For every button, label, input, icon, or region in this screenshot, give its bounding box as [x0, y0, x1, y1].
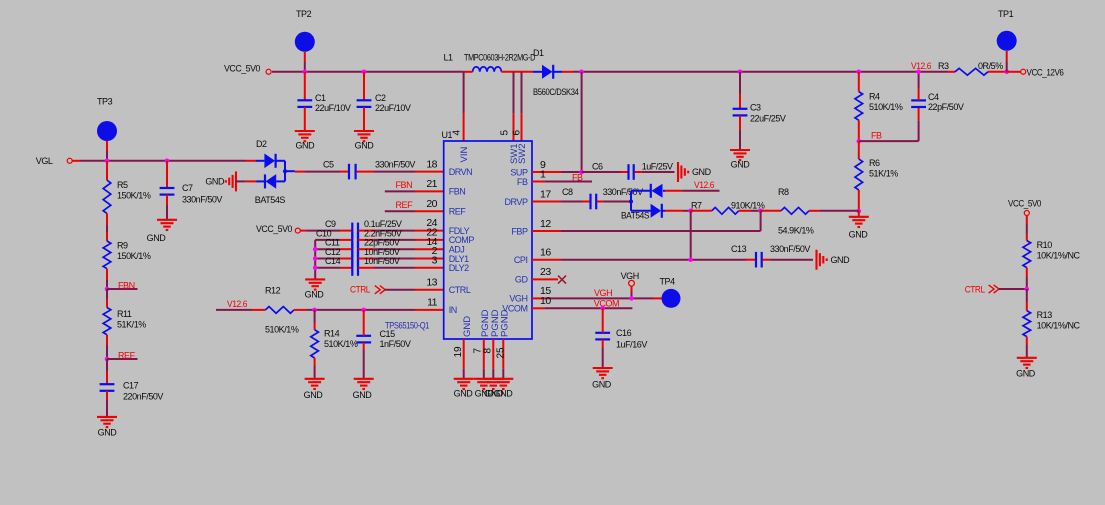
wire SW2 drop to pin 6 — [521, 72, 523, 114]
capacitor C12 10nF/50V — [340, 258, 352, 260]
svg-text:330nF/50V: 330nF/50V — [375, 160, 415, 170]
wire C10-C14 ground bus — [314, 240, 316, 279]
svg-text:R4: R4 — [869, 92, 880, 102]
node C7 junction — [165, 159, 170, 164]
svg-text:D1: D1 — [533, 48, 544, 58]
wire SUP pin 9 to C6 — [532, 171, 561, 173]
wire V12.6 stub (D3) — [683, 190, 720, 192]
wire VGH flag lead — [631, 286, 633, 292]
ground GND (C16) — [593, 367, 613, 369]
svg-text:BAT54S: BAT54S — [621, 210, 649, 220]
wire VIN drop to pin 4 — [463, 72, 465, 114]
svg-text:10K/1%/NC: 10K/1%/NC — [1037, 250, 1081, 260]
svg-text:TP4: TP4 — [660, 277, 676, 287]
svg-text:C2: C2 — [375, 93, 386, 103]
svg-text:CTRL: CTRL — [965, 285, 985, 295]
node R7/R8/FBP junction — [758, 209, 763, 214]
node C2 junction — [362, 70, 367, 75]
svg-text:VGH: VGH — [594, 288, 612, 298]
svg-text:TPS65150-Q1: TPS65150-Q1 — [385, 320, 429, 330]
capacitor C4 22pF/50V — [918, 107, 920, 120]
svg-text:DLY2: DLY2 — [449, 263, 469, 273]
svg-text:18: 18 — [426, 159, 437, 171]
resistor R13 10K/1%/NC — [1026, 289, 1028, 302]
wire pin 3 stub — [415, 267, 444, 269]
svg-text:510K/1%: 510K/1% — [265, 325, 299, 335]
svg-text:VCOM: VCOM — [594, 299, 619, 309]
svg-text:GND: GND — [731, 160, 751, 170]
wire FBP pin 12 — [532, 230, 561, 232]
svg-text:DRVP: DRVP — [504, 197, 527, 207]
wire PGND pin 7 — [483, 339, 485, 369]
wire TP2 lead — [304, 52, 306, 62]
svg-text:330nF/50V: 330nF/50V — [603, 187, 643, 197]
capacitor C1 — [304, 72, 306, 100]
svg-text:VCC_5V0: VCC_5V0 — [1008, 198, 1041, 208]
svg-text:6: 6 — [512, 130, 523, 136]
node R6/R8 junction — [857, 209, 862, 214]
svg-text:25: 25 — [495, 347, 506, 359]
resistor R3 0R/5% — [948, 71, 955, 73]
svg-text:10K/1%/NC: 10K/1%/NC — [1037, 320, 1081, 330]
wire PGND pin 25 — [502, 339, 504, 369]
svg-text:3: 3 — [432, 254, 438, 266]
svg-text:FBN: FBN — [118, 280, 135, 290]
ground GND (PGND pins) — [474, 378, 494, 380]
svg-text:8: 8 — [482, 348, 493, 354]
svg-text:V12.6: V12.6 — [227, 299, 247, 309]
svg-text:GND: GND — [462, 316, 473, 337]
capacitor C17 220nF/50V — [106, 359, 108, 371]
wire TP3 lead — [106, 141, 108, 151]
svg-text:R11: R11 — [117, 309, 132, 319]
wire pin 14 stub — [415, 248, 444, 250]
svg-text:16: 16 — [540, 247, 551, 259]
svg-text:21: 21 — [426, 178, 437, 190]
svg-text:220nF/50V: 220nF/50V — [123, 392, 163, 402]
wire pin 2 stub — [415, 258, 444, 260]
wire VGH pin 15 — [532, 297, 545, 299]
resistor R11 51K/1% — [106, 289, 108, 299]
ground GND (R13) — [1017, 357, 1037, 359]
svg-text:CPI: CPI — [514, 255, 528, 265]
node R4 junction on V12.6 rail — [857, 70, 862, 75]
power terminal VCC_5V0 (top left) — [266, 69, 271, 74]
svg-text:IN: IN — [449, 305, 457, 315]
svg-text:BAT54S: BAT54S — [255, 195, 286, 205]
svg-text:CTRL: CTRL — [350, 284, 370, 294]
resistor R6 51K/1% — [858, 141, 860, 159]
diode D3 BAT54S (charge pump) — [629, 200, 633, 204]
ground GND (R6/R8) — [858, 211, 860, 217]
svg-text:D2: D2 — [256, 139, 267, 149]
node VCC_5V0/C1/TP2 junction — [303, 70, 308, 75]
svg-text:330nF/50V: 330nF/50V — [182, 195, 222, 205]
svg-text:GND: GND — [98, 428, 118, 438]
wire DRVP pin 17 to C8 — [532, 201, 561, 203]
capacitor C11 22pF/50V — [340, 248, 352, 250]
svg-text:C3: C3 — [750, 103, 761, 113]
test point TP3 — [97, 121, 117, 141]
node CTRL junction — [1025, 287, 1030, 292]
svg-text:GND: GND — [494, 388, 514, 398]
svg-text:150K/1%: 150K/1% — [117, 191, 151, 201]
node bus junction C14 — [313, 266, 318, 271]
svg-text:12: 12 — [540, 218, 551, 230]
wire GD pin 23 no-connect — [532, 278, 558, 280]
node C3 junction — [738, 70, 743, 75]
svg-text:10: 10 — [540, 295, 551, 307]
svg-text:C4: C4 — [928, 92, 939, 102]
ground GND (C7) — [157, 219, 177, 221]
power terminal VCC_12V6 — [1007, 71, 1021, 73]
wire REF to pin 20 — [385, 210, 415, 212]
ground GND (D2, rotated) — [235, 171, 237, 191]
node VGL/R5 junction — [105, 159, 110, 164]
svg-text:C17: C17 — [123, 381, 139, 391]
svg-text:FBN: FBN — [449, 187, 466, 197]
svg-text:11: 11 — [427, 297, 438, 309]
node TP1 junction — [1004, 70, 1009, 75]
svg-text:19: 19 — [453, 346, 464, 358]
svg-text:V12.6: V12.6 — [694, 180, 714, 190]
svg-text:REF: REF — [118, 350, 136, 360]
wire VCOM pin 10 — [532, 307, 545, 309]
node FB junction — [857, 139, 862, 144]
wire pin 24 stub — [415, 230, 444, 232]
svg-text:10nF/50V: 10nF/50V — [364, 256, 400, 266]
svg-text:VIN: VIN — [459, 147, 470, 163]
node bus junction C12 — [313, 256, 318, 261]
resistor R9 150K/1% — [106, 232, 108, 241]
capacitor C6 1uF/25V — [621, 171, 629, 173]
svg-text:23: 23 — [540, 266, 551, 278]
test point TP4 — [653, 297, 662, 299]
ground GND (C15) — [354, 378, 374, 380]
svg-text:VGH: VGH — [509, 294, 527, 304]
node REF junction — [105, 357, 110, 362]
svg-text:1uF/25V: 1uF/25V — [642, 162, 673, 172]
wire FBP riser — [760, 211, 762, 231]
ground GND (C17) — [97, 416, 117, 418]
ground GND (C6, rotated) — [677, 162, 679, 182]
capacitor C16 1uF/16V — [602, 308, 604, 326]
svg-text:22uF/10V: 22uF/10V — [315, 103, 351, 113]
svg-text:R13: R13 — [1037, 310, 1053, 320]
svg-text:PGND: PGND — [500, 309, 511, 337]
svg-text:GND: GND — [692, 167, 712, 177]
wire V12.6 feed — [216, 309, 252, 311]
wire to pin 11 — [307, 309, 415, 311]
ground GND (R14) — [305, 378, 325, 380]
svg-text:GND: GND — [1016, 369, 1036, 379]
wire CTRL to pin 13 — [385, 289, 415, 291]
svg-text:GND: GND — [831, 255, 851, 265]
svg-text:B560C/DSK34: B560C/DSK34 — [533, 87, 579, 97]
svg-text:C5: C5 — [323, 160, 334, 170]
capacitor C7 330nF/50V — [166, 161, 168, 188]
svg-text:150K/1%: 150K/1% — [117, 251, 151, 261]
svg-text:GND: GND — [147, 233, 167, 243]
wire SUP drop from D1 junction — [581, 72, 583, 172]
ground GND (pin 19) — [454, 378, 474, 380]
test point TP1 — [997, 31, 1017, 51]
node SUP junction — [579, 170, 584, 175]
svg-text:GND: GND — [304, 390, 324, 400]
svg-text:VCC_5V0: VCC_5V0 — [256, 224, 292, 234]
resistor R12 510K/1% — [252, 309, 265, 311]
svg-text:1nF/50V: 1nF/50V — [380, 339, 411, 349]
wire D3 junction down to CPI row — [690, 211, 692, 260]
op-amp U1 TPS65150-Q1 IC body — [444, 141, 532, 339]
ground GND (C3) — [730, 149, 750, 151]
inductor L1 TMPC0603H-2R2MG-D — [464, 71, 473, 73]
svg-text:R3: R3 — [938, 61, 949, 71]
svg-text:1uF/16V: 1uF/16V — [616, 340, 647, 350]
ground GND (C13, rotated) — [815, 250, 817, 270]
svg-text:FBN: FBN — [396, 180, 413, 190]
resistor R14 510K/1% — [314, 310, 316, 323]
svg-text:GND: GND — [353, 390, 373, 400]
capacitor C10 2.2nF/50V — [340, 239, 352, 241]
svg-text:C1: C1 — [315, 93, 326, 103]
power terminal VGL — [67, 158, 72, 163]
svg-text:510K/1%: 510K/1% — [869, 102, 903, 112]
svg-text:R5: R5 — [117, 180, 128, 190]
svg-text:20: 20 — [426, 198, 437, 210]
svg-text:GND: GND — [355, 141, 375, 151]
svg-text:DRVN: DRVN — [449, 167, 473, 177]
svg-text:GND: GND — [849, 230, 869, 240]
svg-text:VGH: VGH — [621, 271, 639, 281]
svg-text:R8: R8 — [778, 187, 789, 197]
svg-text:510K/1%: 510K/1% — [324, 339, 358, 349]
resistor R4 510K/1% — [858, 72, 860, 92]
svg-text:VCC_5V0: VCC_5V0 — [224, 64, 260, 74]
svg-text:CTRL: CTRL — [449, 285, 471, 295]
svg-text:L1: L1 — [444, 53, 454, 63]
svg-text:22uF/25V: 22uF/25V — [750, 114, 786, 124]
node R14 junction — [312, 308, 317, 313]
node C15 junction — [361, 308, 366, 313]
svg-text:C6: C6 — [592, 162, 603, 172]
svg-text:TP3: TP3 — [97, 97, 113, 107]
capacitor C9 0.1uF/25V — [340, 230, 352, 232]
capacitor C14 10nF/50V — [340, 267, 352, 269]
node VGH junction — [629, 296, 634, 301]
svg-text:TP1: TP1 — [998, 9, 1014, 19]
svg-text:V12.6: V12.6 — [911, 61, 931, 71]
resistor R10 10K/1%/NC — [1026, 216, 1028, 225]
svg-text:R10: R10 — [1037, 240, 1053, 250]
svg-text:1: 1 — [540, 168, 546, 180]
svg-text:51K/1%: 51K/1% — [869, 169, 898, 179]
svg-text:R14: R14 — [324, 329, 340, 339]
wire VGL rail — [72, 160, 80, 162]
svg-text:SUP: SUP — [510, 167, 528, 177]
svg-text:GND: GND — [295, 141, 315, 151]
svg-text:C16: C16 — [616, 328, 632, 338]
svg-text:GND: GND — [454, 388, 474, 398]
svg-text:REF: REF — [396, 200, 414, 210]
svg-text:13: 13 — [426, 277, 437, 289]
svg-text:22uF/10V: 22uF/10V — [375, 103, 411, 113]
wire FBN stub — [107, 288, 138, 290]
svg-text:VCC_12V6: VCC_12V6 — [1027, 67, 1064, 77]
ground GND (C1) — [295, 130, 315, 132]
svg-text:FB: FB — [572, 172, 583, 182]
wire GND pin 19 — [463, 339, 465, 369]
wire FB node to C4 bottom — [859, 140, 919, 142]
wire VCC_5V0 to C9 — [300, 230, 306, 232]
wire CPI pin 16 to C13 — [532, 259, 561, 261]
svg-text:SW2: SW2 — [517, 143, 528, 164]
svg-text:VGL: VGL — [36, 156, 53, 166]
capacitor C15 1nF/50V — [363, 310, 365, 325]
diode D1 B560C/DSK34 — [533, 71, 542, 73]
node C16 junction — [600, 306, 605, 311]
svg-text:GND: GND — [305, 290, 325, 300]
capacitor C3 — [739, 72, 741, 94]
node D3/R7 junction — [688, 209, 693, 214]
svg-text:C14: C14 — [325, 256, 341, 266]
svg-text:22pF/50V: 22pF/50V — [928, 102, 964, 112]
svg-text:GND: GND — [592, 379, 612, 389]
node CPI/D3 junction — [688, 257, 693, 262]
svg-text:FB: FB — [517, 177, 528, 187]
ground GND (C2) — [354, 130, 374, 132]
svg-text:R9: R9 — [117, 241, 128, 251]
wire REF stub — [107, 358, 138, 360]
wire FBN to pin 21 — [385, 190, 415, 192]
capacitor C5 330nF/50V — [295, 171, 305, 173]
no-connect X (GD) — [558, 276, 566, 284]
svg-text:FBP: FBP — [511, 226, 528, 236]
wire V12.6 rail after D1 — [573, 71, 948, 73]
svg-text:5: 5 — [500, 130, 511, 136]
wire CTRL to divider — [999, 288, 1027, 290]
node C4 top junction — [916, 70, 921, 75]
svg-text:TP2: TP2 — [296, 9, 312, 19]
svg-text:C15: C15 — [380, 329, 396, 339]
svg-text:17: 17 — [540, 188, 551, 200]
resistor R8 54.9K/1% — [761, 210, 781, 212]
node bus junction C11 — [313, 247, 318, 252]
wire SW1 drop to pin 5 — [513, 72, 515, 114]
resistor R5 150K/1% — [106, 161, 108, 180]
svg-text:C8: C8 — [562, 187, 573, 197]
svg-text:FB: FB — [871, 131, 882, 141]
wire VCC_5V0 top rail — [272, 71, 464, 73]
svg-text:TMPC0603H-2R2MG-D: TMPC0603H-2R2MG-D — [464, 53, 536, 63]
capacitor C2 — [363, 72, 365, 100]
svg-text:R12: R12 — [265, 286, 281, 296]
svg-text:330nF/50V: 330nF/50V — [770, 244, 810, 254]
svg-text:GND: GND — [205, 177, 225, 187]
wire FB pin 1 — [532, 181, 545, 183]
svg-text:REF: REF — [449, 207, 467, 217]
node FBN junction — [105, 287, 110, 292]
svg-text:51K/1%: 51K/1% — [117, 320, 146, 330]
svg-text:C13: C13 — [731, 244, 747, 254]
node D1 cathode junction — [579, 70, 584, 75]
wire TP1 lead — [1006, 51, 1008, 62]
svg-text:4: 4 — [451, 130, 462, 136]
svg-text:GD: GD — [515, 275, 529, 285]
wire pin 22 stub — [415, 239, 444, 241]
svg-text:R7: R7 — [691, 201, 702, 211]
svg-text:54.9K/1%: 54.9K/1% — [778, 226, 814, 236]
svg-text:R6: R6 — [869, 158, 880, 168]
wire pin 18 stub — [415, 171, 444, 173]
test point TP2 — [295, 32, 315, 52]
svg-text:C7: C7 — [182, 183, 193, 193]
svg-text:0R/5%: 0R/5% — [978, 61, 1003, 71]
wire PGND pin 8 — [492, 339, 494, 369]
ground GND (cap bus) — [305, 278, 325, 280]
